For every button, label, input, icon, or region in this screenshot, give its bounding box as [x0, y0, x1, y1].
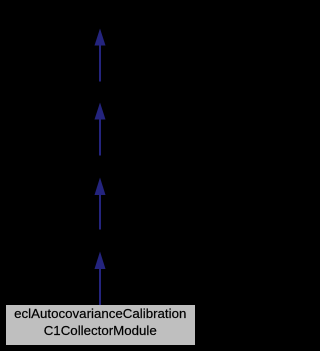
inheritance arrow 2: [95, 103, 106, 156]
wire: [0, 0, 200, 351]
node eclAutocovarianceCalibrationC1CollectorModule: [6, 305, 195, 345]
inheritance arrow 4 (bottom): [95, 252, 106, 306]
inheritance arrow 3: [95, 178, 106, 230]
inheritance arrow 1 (top): [95, 29, 106, 82]
